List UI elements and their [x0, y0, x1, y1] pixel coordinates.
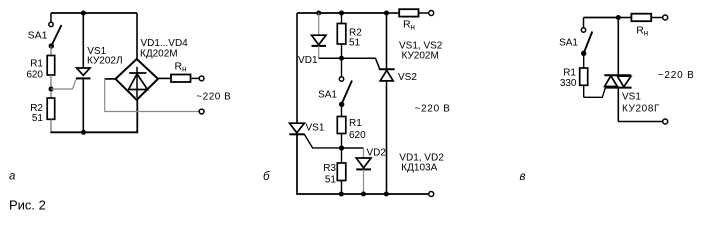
svg-text:КД202М: КД202М [140, 48, 178, 59]
svg-text:VD1: VD1 [298, 55, 318, 66]
node R1/R2 junction a [49, 87, 54, 92]
node R3 bottom [339, 192, 344, 197]
resistor R3 51 (b) [337, 148, 346, 194]
svg-text:330: 330 [560, 78, 577, 89]
thyristor VS1 (a) [76, 13, 91, 132]
svg-text:R1: R1 [30, 59, 43, 70]
svg-text:51: 51 [325, 175, 337, 186]
node Rn junction b [384, 11, 389, 16]
terminal lower (b) [429, 192, 434, 197]
svg-text:SA1: SA1 [28, 30, 48, 42]
svg-text:R1: R1 [349, 118, 362, 129]
wire mid bus b [319, 58, 380, 69]
triac VS1 (v) [604, 18, 631, 122]
svg-text:SA1: SA1 [318, 90, 337, 101]
wire [50, 75, 52, 98]
svg-text:VS1: VS1 [622, 92, 641, 103]
svg-text:51: 51 [32, 113, 44, 124]
wire bottom bus a main [50, 100, 137, 133]
wire switch drop v [583, 18, 585, 28]
wire gate triac (v) [584, 88, 606, 97]
svg-text:н: н [411, 22, 415, 31]
node triac top junction [616, 15, 621, 20]
switch SA1 (a) [49, 22, 62, 49]
svg-text:620: 620 [349, 130, 366, 141]
wire top bus a [51, 12, 137, 14]
load resistor Rn (b) [387, 9, 429, 16]
svg-text:VS1: VS1 [306, 123, 325, 134]
resistor R2 51 (b) [337, 13, 346, 58]
svg-text:в: в [520, 171, 526, 183]
svg-text:н: н [182, 65, 186, 74]
node gate junction (b) [339, 145, 344, 150]
node cathode junction a [81, 130, 86, 135]
svg-text:н: н [644, 28, 648, 37]
svg-text:R3: R3 [323, 163, 336, 174]
svg-text:Рис. 2: Рис. 2 [9, 198, 46, 213]
switch SA1 (b) [339, 58, 352, 107]
svg-text:б: б [263, 171, 270, 183]
switch SA1 (v) [581, 28, 592, 56]
terminal upper (v) [663, 15, 668, 20]
svg-text:КУ202М: КУ202М [402, 51, 439, 62]
wire top bus b [297, 12, 387, 14]
wire AC return gray (a) [105, 79, 200, 112]
terminal upper (b) [429, 11, 434, 16]
wire AC return black stub (a) [105, 78, 116, 80]
wire top bus v [584, 17, 619, 19]
thyristor VS1 (b) [289, 123, 304, 134]
node VD1 top [316, 11, 321, 16]
svg-text:~220 В: ~220 В [658, 70, 695, 81]
node VD2 bottom [361, 192, 366, 197]
svg-text:КД103А: КД103А [401, 163, 437, 174]
svg-text:620: 620 [26, 69, 43, 80]
wire gate VS1 (a) [51, 79, 76, 89]
node R2 top [339, 11, 344, 16]
svg-text:R1: R1 [563, 67, 576, 78]
svg-text:КУ208Г: КУ208Г [622, 103, 660, 114]
svg-text:51: 51 [349, 37, 361, 48]
load resistor Rn (a) [158, 75, 199, 83]
svg-text:SA1: SA1 [559, 38, 578, 49]
wire bottom bus a [50, 119, 52, 132]
svg-text:а: а [9, 171, 15, 183]
thyristor VS2 (b) [379, 13, 395, 194]
svg-text:VS2: VS2 [398, 72, 417, 83]
terminal upper (a) [199, 76, 204, 81]
wire gate VS1 (b) [304, 134, 341, 148]
wire VD2 top (b) [342, 147, 364, 149]
node top junction a [81, 11, 86, 16]
resistor R2 51 (a) [47, 98, 55, 119]
node SA1 top (b) [339, 56, 344, 61]
load resistor Rn (v) [618, 14, 662, 22]
resistor R1 620 (b) [337, 104, 346, 148]
wire left column lower b [297, 134, 431, 194]
bridge rectifier VD1...VD4 (a) [116, 13, 159, 100]
svg-text:КУ202Л: КУ202Л [87, 56, 123, 67]
terminal lower (a) [199, 109, 204, 114]
node VS2 bottom [384, 192, 389, 197]
resistor R1 620 (a) [47, 56, 55, 76]
terminal lower (v) [663, 119, 668, 124]
diode VD2 (b) [356, 148, 371, 194]
diode VD1 (b) [312, 13, 327, 58]
wire left column b [296, 13, 298, 123]
wire [50, 46, 52, 56]
svg-text:VD2: VD2 [367, 147, 387, 158]
resistor R1 330 (v) [580, 53, 588, 97]
svg-text:~220 В: ~220 В [196, 91, 231, 102]
wire switch drop a [50, 13, 52, 22]
wire bottom (v) [618, 121, 662, 123]
svg-text:~220 В: ~220 В [415, 104, 451, 115]
